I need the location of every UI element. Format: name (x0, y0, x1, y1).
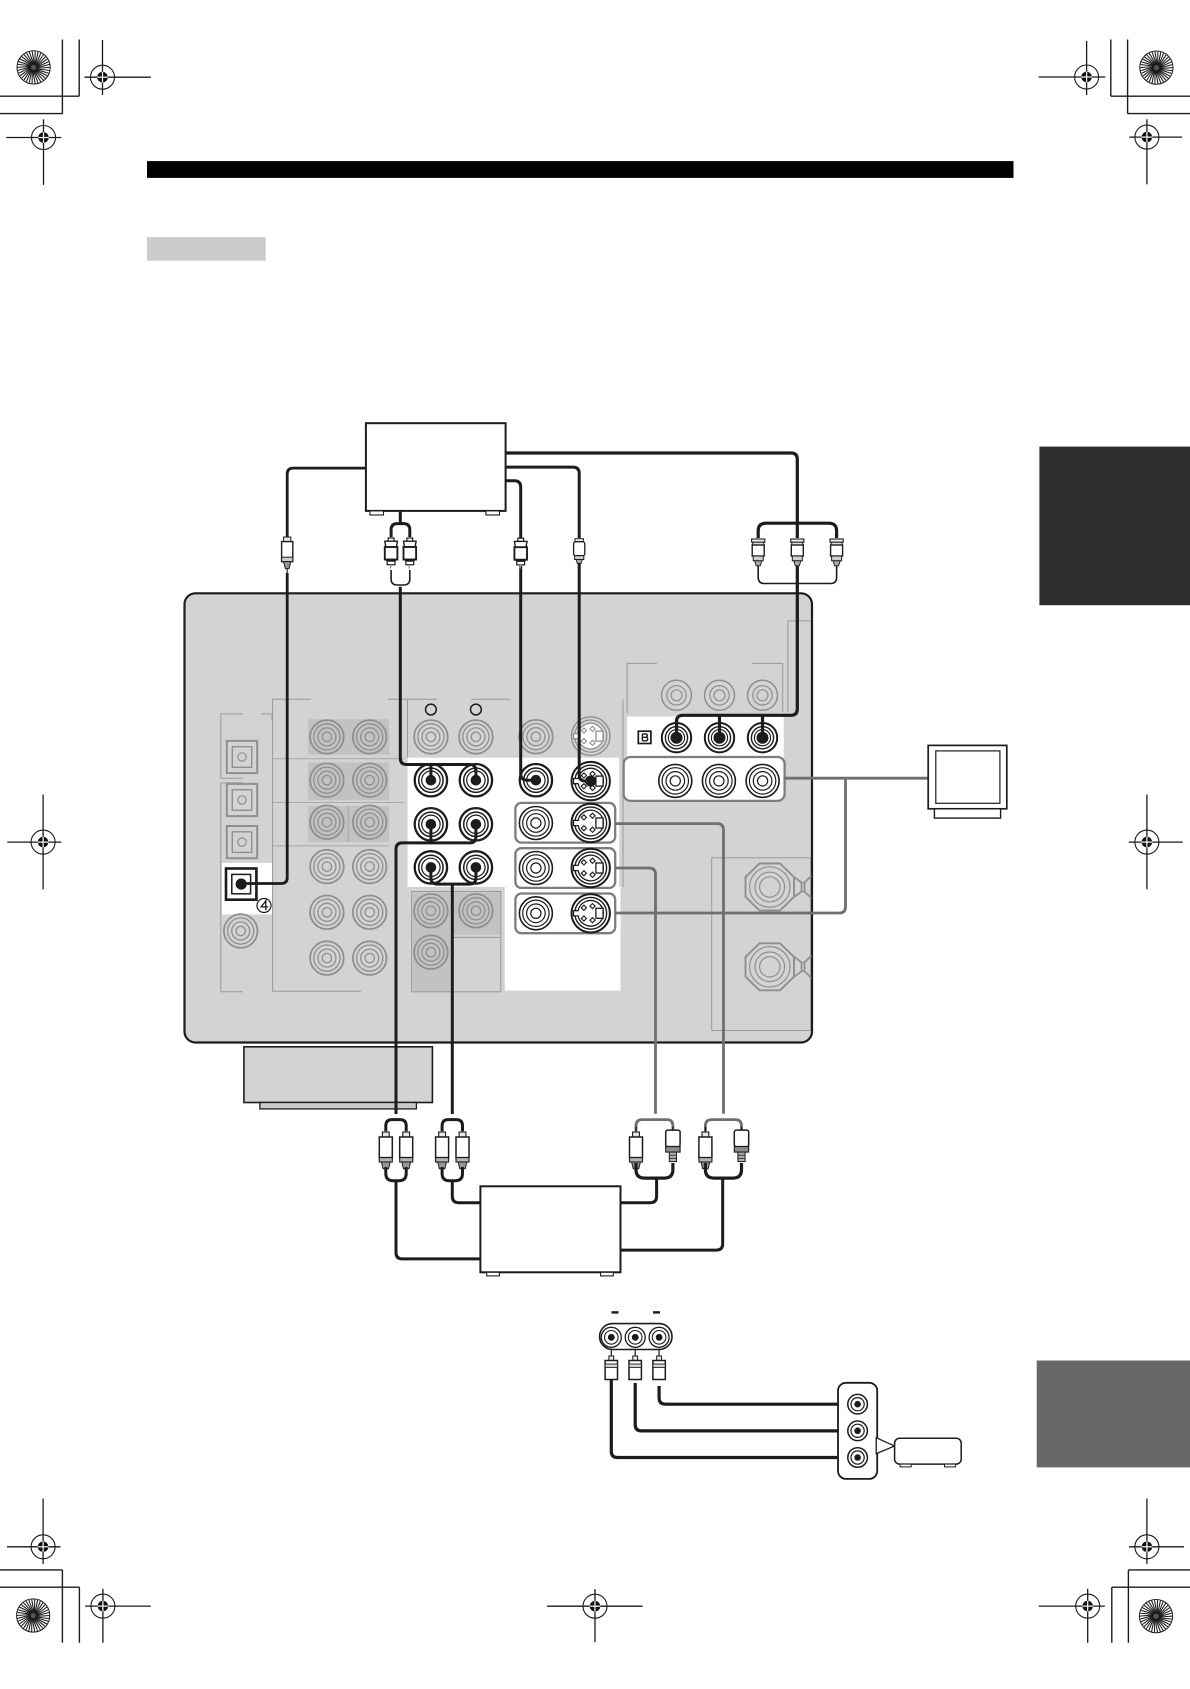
VCR pair2 plugs (436, 1127, 449, 1169)
component row A gray jacks (662, 680, 692, 710)
registration target bottom-left corner (7, 1499, 61, 1565)
component plug 2 (791, 539, 804, 569)
VCR pair3 lead and cable (636, 1163, 673, 1178)
component out jacks (659, 764, 692, 797)
audio grid gray jacks (310, 720, 344, 754)
section outline speakers (712, 858, 811, 1031)
component B jacks (662, 723, 691, 752)
audio pair cable from DVD (391, 511, 410, 537)
VCR pair1 lead U and cable (386, 1167, 406, 1181)
s-video cable (506, 467, 591, 781)
component plug 1 (752, 539, 765, 569)
optical cable (241, 468, 366, 883)
registration target bottom-right corner (1129, 1499, 1184, 1565)
section label box (147, 237, 266, 261)
registration target middle-right (1129, 795, 1183, 890)
crop mark lines top-right (1111, 40, 1190, 114)
optical jacks gray (227, 741, 257, 773)
adapter dashes (612, 1311, 619, 1313)
VCR pair3 bracket gray (636, 1120, 673, 1131)
level small circles (426, 704, 437, 715)
registration target top-right corner (1039, 41, 1106, 95)
registration target top-left corner (85, 40, 151, 95)
right edge tab gray (bottom) (1037, 1361, 1190, 1468)
gray cable component out to TV (785, 777, 929, 780)
gray cable monitor row A down (615, 824, 723, 1114)
projector panel (838, 1383, 877, 1479)
white component B row (627, 717, 784, 758)
bottom cable 2 (635, 1383, 853, 1431)
lower jack box recessed cells (413, 892, 501, 991)
optical jack active (226, 869, 256, 900)
bottom plug 2 (629, 1349, 641, 1380)
s-video cable plug (574, 539, 585, 564)
section outline component video (627, 663, 783, 713)
audio plug right (404, 538, 417, 569)
audio plug left (385, 538, 398, 569)
right edge tab dark (top) (1039, 447, 1190, 606)
VCR pair1 plugs (379, 1127, 392, 1169)
active audio jacks row B (415, 808, 447, 840)
audio row divider lines (273, 759, 404, 846)
component plug 3 (830, 539, 843, 569)
monitor rect row A (515, 803, 615, 843)
bottom cable 1 (611, 1380, 853, 1458)
component B label (638, 731, 651, 743)
lower box gray jacks (414, 894, 448, 928)
chapter title bar (147, 161, 1014, 178)
circled 4 label (257, 899, 271, 913)
bottom cable 3 (659, 1386, 852, 1404)
section outline lower jack box (412, 892, 501, 992)
section outline input right edge (622, 699, 624, 887)
VCR pair2 lead U and cable (442, 1167, 462, 1181)
gray s-video jack (571, 717, 610, 756)
registration target top-right inner (1129, 119, 1182, 184)
receiver rear panel (185, 593, 813, 1042)
subwoofer gray jack (224, 914, 258, 948)
optical cable plug (282, 537, 293, 573)
monitor rect jacks row B (519, 852, 552, 885)
cable row B to VCR pair1 (396, 824, 476, 1114)
registration target top-left inner (6, 119, 61, 185)
monitor rect jacks row A (519, 807, 552, 840)
gray cable monitor row C to TV junction (615, 778, 845, 913)
bottom plug 3 (653, 1349, 665, 1380)
monitor rect row C (515, 894, 615, 934)
video cable (506, 481, 536, 781)
crop mark lines top-left (0, 40, 79, 114)
speaker terminal upper (746, 864, 812, 911)
video cable plug (514, 538, 527, 569)
gray cable monitor row B down (615, 868, 655, 1114)
section outline audio (273, 699, 408, 991)
white optical box (222, 863, 272, 915)
crop mark lines bottom-right (1112, 1570, 1190, 1643)
VCR pair3 plugs (630, 1127, 643, 1169)
section outline input column (408, 699, 511, 758)
TV monitor box (928, 745, 1007, 818)
active video jack (520, 764, 552, 796)
white input area (408, 758, 620, 887)
projector box (895, 1438, 962, 1467)
adapter jacks (601, 1327, 621, 1347)
pinwheel mark bottom-right (1139, 1600, 1172, 1633)
active s-video jack (572, 762, 610, 800)
component out rounded rect (624, 757, 785, 801)
VCR pair1 bracket (386, 1120, 406, 1131)
receiver bottom foot (244, 1047, 433, 1109)
gray video jack (519, 720, 553, 754)
active audio jacks row C (415, 851, 447, 883)
audio input recessed rows (308, 719, 389, 842)
registration target middle-left (7, 795, 61, 890)
pinwheel mark top-left (17, 51, 50, 84)
speaker terminal lower (746, 943, 812, 990)
section outline digital input (221, 714, 272, 992)
DVD player box (366, 423, 506, 515)
component adapter pill (600, 1324, 672, 1350)
VCR pair4 bracket gray (705, 1120, 741, 1131)
pinwheel mark bottom-left (17, 1599, 50, 1632)
registration target bottom-left inner (85, 1589, 151, 1643)
monitor rect jacks row C (519, 897, 552, 930)
registration target bottom-right inner (1039, 1589, 1105, 1643)
VCR pair2 bracket (442, 1120, 462, 1131)
section outline right narrow (788, 621, 811, 712)
component video cable from DVD (506, 453, 837, 538)
VCR box (480, 1186, 620, 1276)
callout wedge (876, 1438, 894, 1454)
active audio jacks with cables row A (415, 764, 447, 796)
pinwheel mark top-right (1140, 51, 1173, 84)
VCR pair4 lead and cable (705, 1163, 741, 1178)
monitor rect row B (515, 848, 615, 888)
VCR pair4 plugs (699, 1127, 712, 1169)
bottom plug 1 (605, 1349, 617, 1380)
crop mark lines bottom-left (0, 1570, 79, 1643)
projector panel jacks (848, 1394, 868, 1414)
registration target bottom-center (547, 1589, 642, 1642)
cable row C to VCR pair2 (431, 867, 476, 1114)
input row gray jacks (414, 720, 448, 754)
